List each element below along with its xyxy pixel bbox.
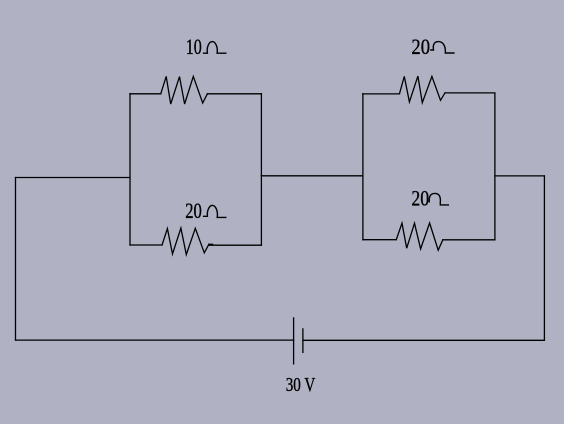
svg-text:20: 20 [411,186,429,211]
wire: left outer vertical [15,178,17,341]
wire: right outer vertical [543,176,545,340]
wire: lead into R1 [130,93,161,95]
node: left group right bus [260,94,262,246]
wire: lead into R2 [130,244,162,246]
wire: lead out of R2 [209,243,262,246]
battery B1 short plate [302,329,304,353]
label: R4 ohm symbol [429,193,449,205]
wire: lead out of R4 [443,239,495,241]
node: right group left bus [362,94,364,240]
svg-text:30 V: 30 V [286,374,316,396]
node: left group left bus [129,94,131,245]
label: R1 ohm symbol [203,42,227,54]
battery B1 long plate [293,318,295,364]
svg-text:20: 20 [411,34,430,59]
resistor R2 20 ohm zigzag [162,228,209,255]
label: R3 ohm symbol [430,42,454,53]
node: right group right bus [494,94,496,240]
label: R2 ohm symbol [203,205,227,217]
resistor R4 20 ohm zigzag [396,223,443,250]
wire: lead into R4 [363,239,396,241]
svg-text:10: 10 [186,34,202,59]
wire: left outer horizontal [16,177,131,179]
wire: lead into R3 [363,93,400,95]
resistor R3 20 ohm zigzag [400,76,446,103]
resistor R1 10 ohm zigzag [161,76,208,104]
wire: bottom-right segment (from battery) [303,339,545,341]
wire: lead out of R3 [445,92,495,94]
wire: middle connector between parallel groups [261,175,362,177]
wire: bottom-left segment (to battery) [16,339,294,341]
svg-text:20: 20 [185,198,202,223]
wire: lead out of R1 [207,93,261,95]
wire: right outer horizontal [495,175,545,177]
